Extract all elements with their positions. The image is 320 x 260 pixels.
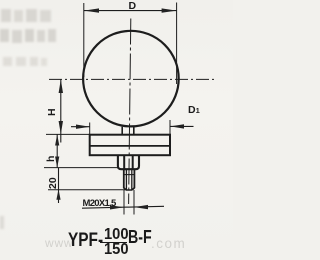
extension line hex bottom: [44, 167, 118, 169]
thread stem left edge: [124, 169, 126, 190]
dimension H line: [60, 79, 62, 142]
M20 right arrow: [134, 205, 148, 209]
bleed-through text row 1: [1, 9, 11, 22]
watermark .com: [151, 236, 186, 251]
neck left line: [121, 127, 123, 135]
hex flat line left: [124, 155, 125, 169]
M20 extension line left: [123, 190, 125, 215]
dimension D1 right arrow: [170, 124, 184, 128]
neck right line: [133, 127, 135, 135]
dimension D line: [84, 10, 177, 12]
bleed-through text row 2: [0, 29, 9, 42]
label D: [129, 0, 137, 12]
dimension h top arrow: [55, 134, 59, 145]
dimension D1 left arrow: [76, 125, 90, 129]
watermark www: [45, 236, 73, 250]
vertical centerline: [129, 19, 131, 205]
dimension D1 right line: [170, 125, 193, 127]
horizontal centerline: [49, 78, 215, 80]
extension line thread end: [48, 189, 126, 191]
thread root line left: [125, 169, 127, 190]
thread stem right edge: [132, 169, 134, 190]
left edge smudge: [0, 216, 4, 229]
dimension H bottom arrow: [59, 121, 63, 134]
dimension D1 left line: [71, 126, 90, 128]
case left edge extension up: [89, 123, 91, 135]
bleed-through text row 3: [3, 57, 12, 66]
dimension H top arrow: [59, 79, 63, 93]
dimension h bottom arrow: [55, 157, 59, 168]
gauge dial circle: [83, 31, 179, 127]
hex flat line right: [132, 155, 133, 169]
paper background vignette: [0, 0, 233, 258]
dimension D right arrow: [162, 8, 177, 12]
case right edge extension up: [169, 120, 171, 135]
thread bottom edge: [126, 189, 132, 191]
label 20: [47, 167, 59, 189]
label H: [46, 94, 58, 116]
extension line case top: [46, 133, 90, 135]
label M20X1.5: [83, 198, 116, 209]
label h: [45, 140, 57, 162]
dimension 20 bottom arrow: [56, 189, 60, 200]
model designation YPF-100/150B-F: [68, 226, 178, 260]
dimension h line: [56, 134, 58, 167]
M20 extension line right: [133, 190, 135, 215]
thread root line right: [131, 169, 133, 190]
M20 left arrow: [110, 205, 124, 209]
dimension 20 line: [58, 168, 60, 203]
hex boss outline: [118, 155, 139, 169]
dimension M20X1.5 line: [82, 206, 164, 208]
extension line right of D: [176, 3, 178, 85]
case mid line: [90, 145, 170, 147]
case box outline: [90, 135, 170, 156]
thread mid line: [124, 174, 135, 176]
label D1: [188, 104, 200, 116]
dimension D left arrow: [84, 8, 99, 12]
extension line left of D: [83, 3, 85, 77]
